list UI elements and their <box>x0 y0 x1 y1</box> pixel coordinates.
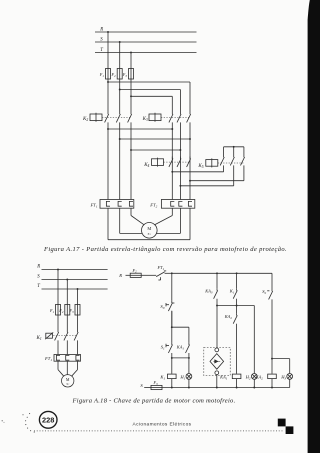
dashed link K3 <box>161 116 190 118</box>
node phase S tap <box>119 41 121 43</box>
rectifier diamond <box>210 354 224 370</box>
contactor K4 contact 2 <box>179 157 181 159</box>
rectifier top terminal <box>215 348 219 352</box>
FT1 element (fig A.18) <box>66 355 70 360</box>
node K5 return 3 <box>179 185 181 187</box>
wire H2 to rail <box>253 379 255 387</box>
wire R drop (fig A.18) <box>57 270 59 305</box>
wire star bar riser 3 <box>243 147 245 155</box>
wire K1 coil to rail <box>171 379 173 388</box>
contactor K3 contact 3 <box>189 112 191 114</box>
svg-text:Acionamentos Elétricos: Acionamentos Elétricos <box>133 422 192 428</box>
wire KA3 to rectifier <box>216 299 218 348</box>
wire FT1-3 down <box>130 208 132 215</box>
fuse F2 (fig A.17) <box>117 69 122 80</box>
wire join bar bottom <box>172 357 189 359</box>
FT2 element <box>188 201 192 206</box>
wire K5 return 1 <box>172 171 223 173</box>
dashed link K5 <box>218 162 244 164</box>
svg-text:R: R <box>36 265 40 270</box>
node R tap (fig A.18) <box>57 269 59 271</box>
wire FT2-2 down <box>179 208 181 233</box>
contactor K3 contact 2 <box>179 112 181 114</box>
node T tap (fig A.18) <box>77 288 79 290</box>
wire below fuse F2 <box>119 79 121 112</box>
contactor K4 contact 1 <box>171 157 173 159</box>
contactor K3 coil box <box>149 114 161 121</box>
wire motor diag left <box>58 370 64 377</box>
node rail-KA3 branch <box>216 272 218 274</box>
wire join outputs h3 <box>131 149 180 151</box>
node rail-S0 branch <box>171 272 173 274</box>
overload relay FT1 box <box>100 200 134 209</box>
svg-text:3~: 3~ <box>66 382 70 386</box>
node phase R tap <box>107 31 109 33</box>
node split S1/KA1 <box>171 326 173 328</box>
page number ellipse <box>39 411 57 428</box>
wire rectifier to rail <box>216 375 218 388</box>
svg-text:K2: K2 <box>82 117 88 122</box>
coil K1 <box>168 374 177 379</box>
decorative dotted arc <box>27 417 28 418</box>
wire K5 return 3 drop <box>233 165 235 185</box>
svg-text:3~: 3~ <box>147 232 151 236</box>
fuse F1 (fig A.17) <box>106 69 111 80</box>
FT1 element <box>118 201 122 206</box>
wire branch to reversing contactor 2 <box>120 89 181 91</box>
contactor K2 contact 3 <box>130 112 132 114</box>
fuse F2 (fig A.18) <box>65 305 70 316</box>
wire phase R bus (fig A.17) <box>95 31 197 33</box>
wire below fuse F1 <box>107 79 109 112</box>
wire below fuse F1 (fig A.18) <box>57 315 59 330</box>
wire star bar riser 1 <box>223 147 225 155</box>
dashed link K4 <box>164 161 191 163</box>
node rail junction <box>171 387 173 389</box>
wire K1 out 1 <box>57 340 59 354</box>
node rail junction <box>271 387 273 389</box>
node K5 return 2 <box>189 180 191 182</box>
contactor K3 contact 1 <box>171 112 173 114</box>
svg-text:R: R <box>118 273 122 278</box>
node branch tap 2 <box>119 89 121 91</box>
wire T drop (fig A.18) <box>77 289 79 305</box>
wire phase R bus (fig A.18) <box>42 269 108 271</box>
node K5 return 1 <box>171 171 173 173</box>
contactor K4 contact 3 <box>189 157 191 159</box>
bridge rectifier (dashed box) <box>204 347 230 375</box>
svg-text:K3: K3 <box>142 117 148 122</box>
wire S drop to fuse F2 <box>119 42 121 69</box>
contactor K5 contact 2 <box>233 155 235 157</box>
FT1 element <box>129 201 133 206</box>
FT1 element <box>106 201 110 206</box>
svg-text:K4: K4 <box>143 163 149 168</box>
node branch tap 3 <box>130 95 132 97</box>
fuse F1 (fig A.18) <box>56 305 61 316</box>
node branch tap 1 <box>107 81 109 83</box>
wire to motor right <box>77 361 79 369</box>
wire branch to reversing contactor 1 <box>108 81 190 83</box>
wire branch drop 3 <box>171 96 173 112</box>
wire phase T bus (fig A.17) <box>95 52 197 54</box>
wire H2 drop <box>253 306 255 374</box>
wire phase S bus (fig A.17) <box>95 41 197 43</box>
svg-text:K5: K5 <box>197 164 203 169</box>
wire motor diag right <box>72 370 78 377</box>
motor M 3~ (fig A.18) <box>61 375 73 387</box>
svg-text:R: R <box>99 28 103 33</box>
contactor K1 contact 2 <box>66 330 68 332</box>
wire K3 output 3 to FT2 <box>189 122 191 199</box>
wire K1 out 3 <box>77 340 79 354</box>
wire KA1 to join <box>188 353 190 358</box>
contactor K5 contact 3 <box>243 155 245 157</box>
node H3 tap <box>271 358 273 360</box>
wire S to fuse F3 <box>144 387 151 389</box>
svg-text:Figura A.17 - Partida estrela-: Figura A.17 - Partida estrela-triângulo … <box>43 246 287 253</box>
wire K2 output 2 to FT1 <box>119 122 121 199</box>
svg-text:T: T <box>37 284 40 289</box>
wire K2 output 1 to FT1 <box>107 122 109 199</box>
node join left <box>171 357 173 359</box>
wire S drop (fig A.18) <box>66 280 68 305</box>
overload relay FT1 box (fig A.18) <box>54 355 81 362</box>
rectifier bottom terminal <box>215 371 219 375</box>
wire rail to S0 <box>171 273 173 300</box>
wire control top rail <box>172 272 272 274</box>
wire phase T bus (fig A.18) <box>42 288 108 290</box>
svg-text:K1: K1 <box>36 336 42 341</box>
dashed link K2 <box>102 116 131 118</box>
lamp H2 <box>251 374 257 380</box>
wire below fuse F2 (fig A.18) <box>66 315 68 330</box>
wire FT2-1 down <box>171 208 173 215</box>
node KA3 branch tap <box>216 305 218 307</box>
wire below fuse F3 (fig A.18) <box>77 315 79 330</box>
wire KA2 coil to rail <box>271 379 273 388</box>
contactor K2 contact 1 <box>107 112 109 114</box>
node star bar mid <box>233 146 235 148</box>
ink specks page edge <box>2 420 3 421</box>
lamp H1 <box>186 374 192 380</box>
coil KA2 <box>268 374 277 379</box>
wire under motor <box>108 239 190 241</box>
fuse F3 (fig A.18) <box>75 305 80 316</box>
wire K2 output 3 to FT1 <box>130 122 132 199</box>
wire split bar top <box>172 326 189 328</box>
wire FT1 contact to rail <box>165 272 172 274</box>
FT2 element <box>171 201 175 206</box>
node tap crosses K1 branch <box>236 305 238 307</box>
node rail junction <box>188 387 190 389</box>
wire K1 contact to KA2 contact <box>236 299 238 314</box>
wire H3 drop <box>289 359 291 374</box>
wire S2 to KA2 coil <box>271 299 273 373</box>
svg-text:Figura A.18 - Chave de partida: Figura A.18 - Chave de partida de motor … <box>72 397 236 404</box>
dotted leader line <box>34 430 35 431</box>
node phase T tap <box>130 52 132 54</box>
FT1 element (fig A.18) <box>76 355 80 360</box>
wire K3 output 1 to FT2 <box>171 122 173 199</box>
wire join outputs h1 <box>108 128 172 130</box>
wire FT2-1 to motor <box>155 216 173 225</box>
contactor K1 actuator symbol <box>46 333 53 338</box>
FT1 element (fig A.18) <box>56 355 60 360</box>
svg-text:T: T <box>100 48 103 53</box>
wire KA1 coil to rail <box>236 379 238 388</box>
wire split right drop <box>188 327 190 342</box>
wire branch drop 1 <box>189 82 191 112</box>
black corner squares <box>278 419 286 427</box>
wire K5 return 3 <box>180 185 233 187</box>
motor M 3~ (fig A.17) <box>142 223 158 239</box>
node S tap (fig A.18) <box>66 279 68 281</box>
contactor K2 contact 2 <box>119 112 121 114</box>
node rail junction <box>253 387 255 389</box>
fuse F2 (control) <box>130 273 141 277</box>
lamp H3 <box>287 374 293 380</box>
wire FT2-3 down <box>189 208 191 240</box>
wire K3 output 2 to FT2 <box>179 122 181 199</box>
wire H3 tap bar <box>272 358 290 360</box>
wire K1 out 2 <box>66 340 68 354</box>
wire rail corner to S2 <box>271 273 273 289</box>
wire T drop to fuse F3 <box>130 53 132 69</box>
wire S0 to split <box>171 311 173 328</box>
wire FT2-2 to motor <box>156 232 180 234</box>
wire H3 to rail <box>289 379 291 387</box>
FT2 element <box>179 201 183 206</box>
node rail-K1 branch <box>236 272 238 274</box>
svg-text:228: 228 <box>42 416 54 425</box>
wire FT1-2 down <box>119 208 121 233</box>
black binding bar <box>308 0 320 453</box>
wire branch to reversing contactor 3 <box>131 95 172 97</box>
wire to K1 coil <box>171 358 173 374</box>
fuse F3 (fig A.17) <box>129 69 134 80</box>
contactor K5 contact 1 <box>223 155 225 157</box>
wire F2 to FT1 contact <box>141 274 156 276</box>
wire to lamp H1 <box>188 358 190 374</box>
wire below fuse F3 <box>130 79 132 112</box>
wire to motor left <box>57 361 59 369</box>
wire H1 to rail <box>188 379 190 387</box>
node join right <box>188 357 190 359</box>
wire FT1-3 to motor <box>131 216 144 225</box>
wire tap to H2 drop <box>217 305 254 307</box>
fuse F3 (control) <box>151 385 162 389</box>
contactor K1 contact 3 <box>77 330 79 332</box>
svg-text:M: M <box>147 226 151 231</box>
contactor K2 coil box <box>90 114 102 121</box>
wire K5 return 2 drop <box>243 165 245 180</box>
contactor K5 coil box <box>206 160 218 167</box>
node rail junction <box>236 387 238 389</box>
wire R drop to fuse F1 <box>107 32 109 69</box>
wire phase S bus (fig A.18) <box>42 279 108 281</box>
wire KA2 contact to KA1 coil <box>236 324 238 374</box>
wire rail to K1 contact <box>236 273 238 288</box>
wire star bar (K5 short) <box>224 146 244 148</box>
contactor K4 coil box <box>152 159 164 166</box>
wire star bar riser 2 <box>233 147 235 155</box>
coil KA1 <box>232 374 241 379</box>
wire FT1-2 to motor <box>120 232 143 234</box>
wire FT1-1 down <box>107 208 109 240</box>
wire R to fuse F2 <box>126 274 131 276</box>
wire K5 return 2 <box>190 180 244 182</box>
wire to motor mid <box>66 361 68 375</box>
contactor K1 contact 1 <box>57 330 59 332</box>
dashed link K1 <box>53 335 77 337</box>
wire rail to KA3 contact <box>216 273 218 288</box>
wire K5 return 1 drop <box>223 165 225 171</box>
wire branch drop 2 <box>179 90 181 113</box>
node rail junction <box>216 387 218 389</box>
wire control bottom rail <box>162 387 290 389</box>
wire join outputs h2 <box>120 138 190 140</box>
wire S1 to join <box>171 353 173 358</box>
overload relay FT2 box <box>161 200 194 209</box>
